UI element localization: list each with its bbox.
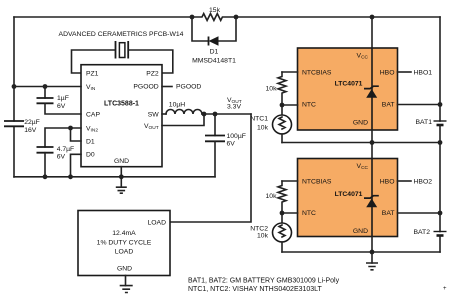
svg-text:GND: GND [114,158,129,165]
node 4.7uF-gnd [43,174,48,179]
node VIN-1uF [43,84,48,89]
svg-text:LOAD: LOAD [115,249,134,256]
wire bottom rail [282,251,440,253]
svg-text:10k: 10k [257,232,269,239]
diode D1 MMSD4148T1 [192,36,236,64]
svg-text:PZ2: PZ2 [146,71,159,78]
thermistor NTC1 10k [250,105,291,143]
resistor 10k (lower) [266,181,286,213]
wire NTCBIAS2 stub [282,180,298,182]
svg-text:BAT: BAT [382,101,395,108]
wire diode branch [192,17,236,41]
svg-text:HBO: HBO [380,70,395,77]
plus mark [443,286,447,292]
svg-text:1% DUTY CYCLE: 1% DUTY CYCLE [97,239,152,246]
svg-text:NTC1: NTC1 [250,115,268,122]
svg-text:12.4mA: 12.4mA [112,230,136,237]
node 100uF tap [213,112,218,117]
node NTC2 [280,211,285,216]
svg-text:BAT2: BAT2 [414,229,431,236]
wire top rail [14,16,440,18]
wire GND pin stub [120,167,122,177]
inductor L 10uH [162,102,202,115]
piezo transducer ADVANCED CERAMETRICS PFCB-W14 [59,31,184,59]
svg-text:LTC3588-1: LTC3588-1 [104,101,139,108]
svg-text:MMSD4148T1: MMSD4148T1 [192,58,236,65]
wire PGOOD stub [162,84,201,91]
svg-text:PGOOD: PGOOD [176,84,201,91]
node Vcc1 tap on top rail [370,15,375,20]
ground symbol under load [120,276,133,293]
svg-text:6V: 6V [227,141,236,148]
svg-text:GND: GND [353,120,368,127]
svg-text:BAT1: BAT1 [416,119,433,126]
node D0-gnd [68,174,73,179]
svg-text:100µF: 100µF [227,133,246,140]
node NTC1 [280,103,285,108]
net label VOUT 3.3V [227,97,242,111]
svg-text:15k: 15k [209,7,221,14]
svg-text:HBO2: HBO2 [414,179,433,186]
op-amp U3 LTC4071 (bottom) [298,159,398,237]
capacitor C 4.7uF 6V [37,146,75,177]
svg-text:D0: D0 [86,152,95,159]
resistor R 15k [192,7,236,21]
op-amp U1 LTC3588-1 [81,65,162,167]
svg-text:PGOOD: PGOOD [133,84,158,91]
svg-text:NTCBIAS: NTCBIAS [302,179,332,186]
wire Vcc1 drop [371,17,373,48]
wire VOUT feedback [162,114,204,126]
node GND-bus [119,174,124,179]
wire HBO2 stub [398,179,433,186]
svg-text:BAT: BAT [382,210,395,217]
svg-text:4.7µF: 4.7µF [57,146,75,153]
svg-text:ADVANCED CERAMETRICS PFCB-W14: ADVANCED CERAMETRICS PFCB-W14 [59,31,184,38]
node top-right of diode branch [234,15,239,20]
svg-text:10k: 10k [257,125,269,132]
node BAT2 [438,211,443,216]
wire BAT1 stub [398,104,441,106]
wire NTCBIAS1 stub [282,71,298,73]
svg-text:3.3V: 3.3V [227,104,241,111]
capacitor C 100uF 6V [205,114,246,177]
resistor 10k (upper) [266,72,286,105]
svg-text:NTCBIAS: NTCBIAS [302,70,332,77]
wire piezo right to PZ2 [129,50,173,73]
wire VIN to left rail [14,86,81,88]
wire D1 tie to VIN2 [71,128,82,141]
wire BAT2 stub [398,212,441,214]
svg-text:GND: GND [117,266,132,273]
svg-text:LOAD: LOAD [147,219,166,226]
wire SW output line [202,113,251,115]
wire VIN2 [45,128,81,147]
svg-text:1µF: 1µF [57,95,69,102]
svg-text:PZ1: PZ1 [86,71,99,78]
svg-text:NTC: NTC [302,101,316,108]
svg-text:HBO: HBO [380,179,395,186]
svg-text:NTC: NTC [302,210,316,217]
svg-text:NTC1, NTC2: VISHAY NTHS0402E31: NTC1, NTC2: VISHAY NTHS0402E3103LT [188,286,323,293]
capacitor C 22uF 16V [4,119,40,134]
wire bottom ground bus [14,176,215,178]
wire mid bus [282,142,440,144]
battery BAT1 [416,119,447,143]
ground symbol bottom [366,252,378,270]
wire GND1 drop [371,130,373,143]
svg-text:CAP: CAP [86,112,100,119]
ground symbol under LTC3588 [116,177,127,193]
wire HBO1 stub [398,70,433,77]
svg-text:LTC4071: LTC4071 [335,80,363,87]
svg-text:16V: 16V [24,127,37,134]
svg-text:6V: 6V [57,103,66,110]
wire right rail mid [439,143,441,232]
wire Vcc2 drop [371,143,373,159]
svg-text:10k: 10k [266,85,278,92]
svg-text:22µF: 22µF [24,119,40,126]
wire GND2 drop [371,237,373,253]
node bus-right rail [438,140,443,145]
node VIN2-D1 tie [68,126,73,131]
capacitor C 1uF 6V [37,87,82,115]
op-amp U2 LTC4071 (top) [298,48,398,130]
svg-text:HBO1: HBO1 [414,70,433,77]
wire piezo left to PZ1 [72,50,115,73]
wire VOUT to load [170,114,251,222]
thermistor NTC2 10k [250,213,291,252]
battery BAT2 [414,229,447,252]
wire left rail [13,17,15,177]
svg-text:D1: D1 [86,138,95,145]
svg-text:GND: GND [353,228,368,235]
wire NTC2 stub [282,212,298,214]
svg-text:+: + [443,286,447,292]
svg-text:SW: SW [148,111,160,118]
svg-text:6V: 6V [57,154,66,161]
node GND1-bus [370,140,375,145]
svg-text:10µH: 10µH [169,102,185,109]
note battery and thermistor part numbers [188,278,340,294]
svg-text:BAT1, BAT2: GM BATTERY GMB3010: BAT1, BAT2: GM BATTERY GMB301009 Li-Poly [188,278,340,285]
node GND2-rail [370,250,375,255]
wire NTC1 stub [282,104,298,106]
svg-text:LTC4071: LTC4071 [335,191,363,198]
node VOUT feedback [202,112,207,117]
node BAT1 [438,102,443,107]
svg-text:10k: 10k [266,193,278,200]
wire D0 to ground bus [71,154,82,177]
load block [78,211,170,276]
node top-left of diode branch [190,15,195,20]
svg-text:D1: D1 [210,49,219,56]
wire right rail upper [439,17,441,121]
node VIN-left rail [12,84,17,89]
